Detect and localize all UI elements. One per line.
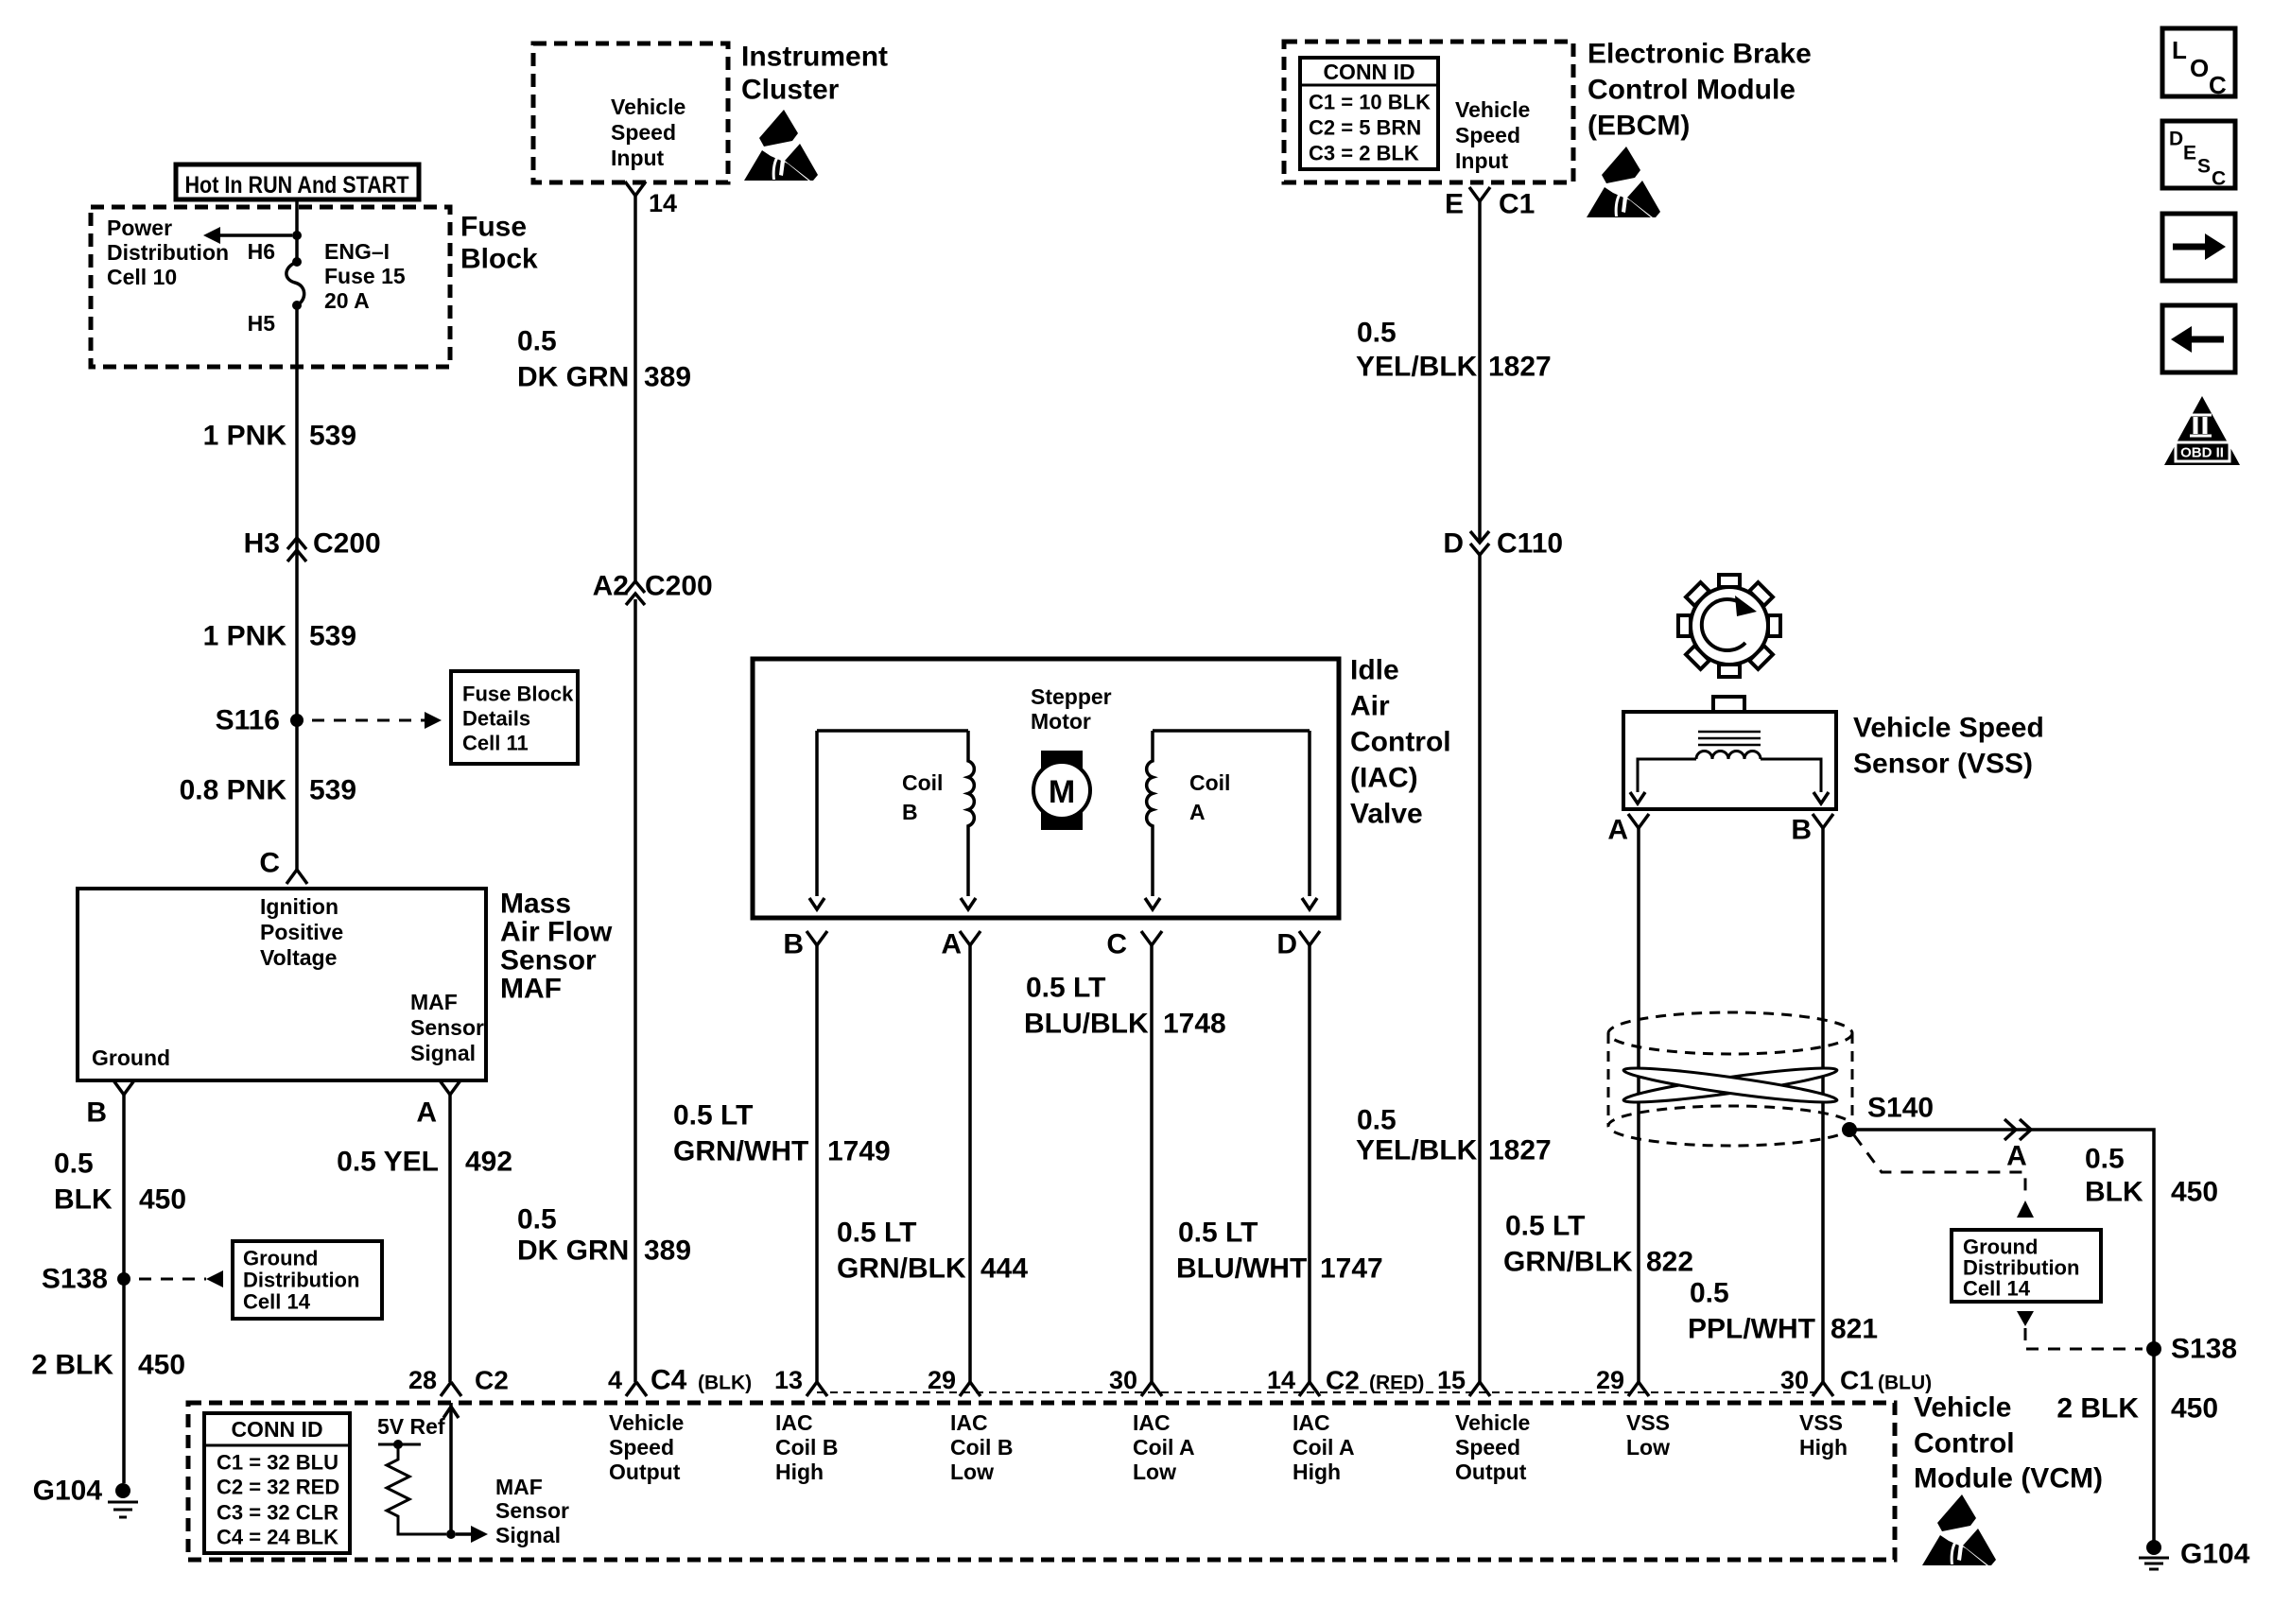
svg-text:822: 822 — [1646, 1247, 1693, 1278]
svg-text:Fuse: Fuse — [460, 212, 527, 243]
svg-text:PPL/WHT: PPL/WHT — [1688, 1314, 1815, 1345]
svg-text:Air Flow: Air Flow — [500, 917, 613, 948]
ESD sensitivity symbol (instrument cluster) — [744, 110, 818, 181]
instrument cluster pin 14 — [625, 181, 646, 196]
svg-text:A: A — [1189, 800, 1206, 824]
svg-text:492: 492 — [465, 1147, 512, 1178]
svg-text:IAC: IAC — [775, 1410, 813, 1435]
svg-text:Air: Air — [1350, 691, 1390, 722]
svg-text:B: B — [1791, 815, 1812, 846]
VCM pin 30 connector C1 (BLU) — [1813, 1382, 1833, 1396]
H6 feed arrow to power distribution — [220, 233, 292, 237]
svg-text:A: A — [416, 1097, 437, 1129]
svg-text:Signal: Signal — [410, 1041, 476, 1065]
wire: IAC pin A to VCM pin 29 (circuit 444) — [968, 945, 972, 1382]
VCM pin 15 — [1469, 1382, 1490, 1396]
legend OBD II symbol — [2164, 396, 2240, 465]
svg-text:OBD II: OBD II — [2180, 445, 2224, 461]
svg-text:0.5 LT: 0.5 LT — [1026, 973, 1105, 1004]
junction H6 feed dot — [292, 231, 302, 240]
svg-text:30: 30 — [1780, 1366, 1809, 1394]
svg-text:389: 389 — [644, 1235, 691, 1267]
ground G104 (right) — [2146, 1540, 2161, 1555]
VCM internal wire: pin 28 to MAF sensor signal node — [449, 1403, 453, 1534]
svg-text:450: 450 — [139, 1184, 186, 1216]
svg-text:YEL/BLK: YEL/BLK — [1356, 352, 1478, 383]
svg-text:1827: 1827 — [1488, 352, 1552, 383]
VSS reluctor wheel (gear symbol) — [1691, 587, 1768, 665]
pass-through chevrons on S140 wire — [2004, 1119, 2016, 1140]
svg-text:Motor: Motor — [1031, 709, 1091, 734]
svg-text:E: E — [1445, 189, 1464, 220]
svg-text:Block: Block — [460, 244, 538, 275]
VCM pin 13 — [807, 1382, 827, 1396]
svg-text:C2 = 5 BRN: C2 = 5 BRN — [1309, 116, 1421, 140]
reference box "Fuse Block Details Cell 11" — [451, 671, 578, 764]
svg-text:Coil: Coil — [1189, 770, 1230, 795]
svg-text:Vehicle Speed: Vehicle Speed — [1853, 713, 2044, 744]
VSS pin A — [1628, 814, 1649, 828]
svg-text:0.5: 0.5 — [2085, 1144, 2125, 1175]
svg-text:0.5: 0.5 — [54, 1149, 94, 1180]
fuse ENG-I Fuse 15 20 A (symbol) — [292, 257, 302, 267]
svg-text:28: 28 — [408, 1366, 437, 1394]
svg-text:13: 13 — [774, 1366, 803, 1394]
IAC pin B — [807, 931, 827, 945]
VCM pin 29 (VSS low) — [1628, 1382, 1649, 1396]
svg-text:C2: C2 — [475, 1366, 509, 1395]
svg-text:1747: 1747 — [1320, 1253, 1383, 1285]
svg-text:Ground: Ground — [243, 1247, 318, 1270]
svg-text:H5: H5 — [248, 311, 276, 336]
svg-text:B: B — [783, 929, 804, 960]
svg-text:30: 30 — [1109, 1366, 1137, 1394]
svg-text:GRN/BLK: GRN/BLK — [837, 1253, 966, 1285]
svg-text:O: O — [2190, 54, 2209, 82]
power feed box "Hot In RUN And START" — [176, 164, 419, 199]
svg-text:15: 15 — [1437, 1366, 1466, 1394]
svg-text:Coil A: Coil A — [1133, 1435, 1195, 1460]
svg-text:Module (VCM): Module (VCM) — [1914, 1463, 2103, 1494]
svg-text:Vehicle: Vehicle — [1914, 1392, 2011, 1424]
svg-text:14: 14 — [649, 189, 677, 217]
svg-text:A2: A2 — [593, 571, 629, 602]
svg-text:VSS: VSS — [1799, 1410, 1843, 1435]
wire: fuse H5 down to MAF pin C (circuit 539) — [295, 305, 299, 870]
svg-text:1 PNK: 1 PNK — [203, 621, 287, 652]
svg-text:14: 14 — [1267, 1366, 1295, 1394]
VSS pickup coil (symbol) — [1698, 732, 1761, 745]
svg-text:Electronic Brake: Electronic Brake — [1588, 39, 1812, 70]
svg-text:Low: Low — [1626, 1435, 1670, 1460]
VCM pin 14 connector C2 (RED) — [1299, 1382, 1320, 1396]
fuse block module (dashed box) — [91, 207, 450, 367]
svg-text:GRN/WHT: GRN/WHT — [673, 1136, 808, 1167]
svg-text:1749: 1749 — [827, 1136, 891, 1167]
svg-text:C110: C110 — [1497, 528, 1563, 560]
svg-text:H3: H3 — [244, 528, 280, 560]
svg-text:Coil: Coil — [902, 770, 943, 795]
svg-text:0.5 LT: 0.5 LT — [1505, 1211, 1585, 1242]
svg-text:Output: Output — [1455, 1460, 1527, 1484]
IAC coil A winding — [1153, 729, 1310, 733]
svg-text:Distribution: Distribution — [243, 1269, 359, 1292]
svg-text:Cell 11: Cell 11 — [462, 732, 529, 755]
IAC pin C — [1141, 931, 1162, 945]
arrow to MAF Sensor Signal (internal) — [456, 1532, 471, 1536]
svg-text:450: 450 — [138, 1350, 185, 1381]
svg-text:Ground: Ground — [92, 1045, 170, 1070]
svg-text:B: B — [86, 1097, 107, 1129]
svg-text:High: High — [1293, 1460, 1341, 1484]
svg-text:Ignition: Ignition — [260, 894, 338, 919]
connector H3 C200 (in-line) — [287, 538, 306, 549]
svg-text:Coil A: Coil A — [1293, 1435, 1355, 1460]
svg-text:C1 = 10 BLK: C1 = 10 BLK — [1309, 91, 1431, 114]
svg-text:Mass: Mass — [500, 889, 571, 920]
svg-text:(EBCM): (EBCM) — [1588, 111, 1690, 142]
svg-text:Fuse 15: Fuse 15 — [324, 264, 406, 288]
svg-text:YEL/BLK: YEL/BLK — [1356, 1135, 1478, 1166]
legend box right arrow — [2162, 214, 2235, 281]
svg-text:IAC: IAC — [950, 1410, 988, 1435]
svg-text:1748: 1748 — [1163, 1009, 1226, 1040]
svg-text:539: 539 — [309, 621, 356, 652]
svg-text:D: D — [1276, 929, 1297, 960]
svg-text:G104: G104 — [2180, 1539, 2250, 1570]
svg-text:821: 821 — [1831, 1314, 1878, 1345]
svg-text:C: C — [259, 848, 280, 879]
svg-text:Low: Low — [950, 1460, 994, 1484]
wire: MAF signal pin A to VCM pin 28 (circuit 492) — [448, 1095, 452, 1382]
legend box DESC — [2162, 121, 2235, 188]
svg-text:29: 29 — [928, 1366, 956, 1394]
svg-text:A: A — [1607, 815, 1628, 846]
svg-text:Output: Output — [609, 1460, 681, 1484]
svg-text:0.5: 0.5 — [517, 326, 557, 357]
svg-text:5V Ref: 5V Ref — [377, 1414, 445, 1439]
svg-text:Valve: Valve — [1350, 799, 1423, 830]
svg-text:Coil B: Coil B — [775, 1435, 838, 1460]
svg-text:539: 539 — [309, 421, 356, 452]
svg-text:L: L — [2172, 36, 2187, 64]
svg-text:0.5 YEL: 0.5 YEL — [337, 1147, 439, 1178]
vehicle speed sensor VSS (box) — [1713, 697, 1744, 712]
dashed reference arrow from S138 to Ground Distribution — [139, 1278, 206, 1281]
svg-text:Vehicle: Vehicle — [609, 1410, 684, 1435]
legend box left arrow — [2162, 305, 2235, 372]
svg-text:MAF: MAF — [410, 990, 458, 1014]
svg-text:S: S — [2197, 156, 2211, 178]
svg-text:0.5 LT: 0.5 LT — [837, 1218, 916, 1249]
svg-text:Fuse Block: Fuse Block — [462, 682, 574, 706]
wire: IAC pin D to VCM pin 14 (circuit 1747) — [1308, 945, 1311, 1382]
svg-text:Sensor (VSS): Sensor (VSS) — [1853, 749, 2033, 780]
VCM connector face (thin dashed line) — [817, 1391, 1823, 1393]
svg-text:450: 450 — [2171, 1177, 2218, 1208]
svg-text:S140: S140 — [1867, 1093, 1934, 1124]
dashed reference path from S140 to Ground Distribution (right) — [1854, 1135, 2025, 1195]
svg-text:(IAC): (IAC) — [1350, 763, 1418, 794]
svg-text:0.5: 0.5 — [1690, 1278, 1729, 1309]
IAC pin D — [1299, 931, 1320, 945]
svg-text:29: 29 — [1596, 1366, 1624, 1394]
svg-text:2 BLK: 2 BLK — [31, 1350, 113, 1381]
svg-text:444: 444 — [980, 1253, 1028, 1285]
legend box LOC — [2162, 28, 2235, 96]
vehicle control module VCM (dashed box) — [188, 1403, 1895, 1560]
svg-text:G104: G104 — [33, 1476, 103, 1507]
VCM pin 29 (IAC) — [960, 1382, 980, 1396]
connector D C110 (in-line) — [1470, 531, 1489, 543]
svg-text:Sensor: Sensor — [410, 1015, 484, 1040]
stepper motor M (symbol) — [1041, 751, 1083, 830]
svg-text:Control: Control — [1350, 727, 1451, 758]
svg-text:Control: Control — [1914, 1428, 2015, 1460]
svg-text:CONN ID: CONN ID — [231, 1417, 322, 1442]
svg-text:DK GRN: DK GRN — [517, 362, 629, 393]
svg-text:Vehicle: Vehicle — [611, 95, 685, 119]
svg-text:A: A — [941, 929, 962, 960]
mass air flow sensor MAF (box) — [78, 889, 486, 1080]
svg-text:0.5: 0.5 — [1357, 1105, 1397, 1136]
svg-text:C: C — [2212, 168, 2226, 190]
electronic brake control module EBCM (dashed box) — [1284, 42, 1573, 182]
svg-text:Sensor: Sensor — [495, 1498, 569, 1523]
svg-text:Idle: Idle — [1350, 655, 1399, 686]
svg-text:D: D — [2169, 129, 2183, 150]
ESD sensitivity symbol (VCM) — [1922, 1494, 1996, 1565]
svg-text:1 PNK: 1 PNK — [203, 421, 287, 452]
MAF pin B — [113, 1080, 134, 1095]
svg-text:Speed: Speed — [1455, 123, 1520, 147]
svg-text:MAF: MAF — [495, 1475, 543, 1499]
connector A2 C200 (in-line) — [626, 581, 645, 593]
svg-text:VSS: VSS — [1626, 1410, 1670, 1435]
svg-text:S138: S138 — [2171, 1334, 2237, 1365]
splice S138 (left) — [117, 1272, 130, 1286]
VCM pin 28 connector C2 — [441, 1382, 461, 1396]
svg-text:BLU/BLK: BLU/BLK — [1024, 1009, 1149, 1040]
svg-text:GRN/BLK: GRN/BLK — [1503, 1247, 1633, 1278]
IAC pin A — [960, 931, 980, 945]
svg-text:C200: C200 — [313, 528, 381, 560]
svg-text:Instrument: Instrument — [741, 42, 888, 73]
svg-text:Speed: Speed — [609, 1435, 674, 1460]
twisted pair shield (symbol) — [1607, 1033, 1610, 1126]
IAC coil B winding — [817, 729, 968, 733]
ground G104 (left) — [115, 1483, 130, 1498]
svg-text:D: D — [1443, 528, 1464, 560]
svg-text:(BLU): (BLU) — [1878, 1373, 1932, 1394]
VCM pin 30 (IAC) — [1141, 1382, 1162, 1396]
svg-text:Control Module: Control Module — [1588, 75, 1796, 106]
splice S140 — [1842, 1122, 1857, 1137]
svg-text:389: 389 — [644, 362, 691, 393]
svg-text:0.5: 0.5 — [1357, 318, 1397, 349]
splice S138 (right) — [2146, 1341, 2161, 1356]
svg-text:20 A: 20 A — [324, 288, 370, 313]
svg-text:(RED): (RED) — [1369, 1373, 1424, 1394]
svg-text:S138: S138 — [42, 1264, 108, 1295]
wire: IAC pin C to VCM pin 30 (circuit 1748) — [1150, 945, 1154, 1382]
svg-text:C200: C200 — [645, 571, 713, 602]
wire: VSS pin B to VCM pin 30 VSS high (circuit 821) — [1821, 828, 1825, 1382]
svg-text:Cell 10: Cell 10 — [107, 265, 177, 289]
rotation arrow inside reluctor wheel — [1702, 599, 1745, 650]
CONN ID table (VCM) — [204, 1413, 350, 1553]
svg-text:High: High — [1799, 1435, 1848, 1460]
svg-text:539: 539 — [309, 775, 356, 806]
svg-text:Cell 14: Cell 14 — [1963, 1277, 2031, 1301]
CONN ID table (EBCM) — [1300, 58, 1438, 169]
svg-text:0.5 LT: 0.5 LT — [673, 1100, 753, 1132]
dashed reference arrow from S116 to Fuse Block Details — [312, 719, 425, 722]
instrument cluster module (dashed box) — [533, 43, 728, 182]
svg-text:BLK: BLK — [2085, 1177, 2143, 1208]
svg-text:Hot In RUN And START: Hot In RUN And START — [185, 172, 409, 199]
VSS pin B — [1813, 814, 1833, 828]
splice S116 — [290, 714, 304, 727]
svg-text:M: M — [1049, 774, 1075, 810]
svg-text:IAC: IAC — [1293, 1410, 1330, 1435]
svg-text:1827: 1827 — [1488, 1135, 1552, 1166]
svg-text:0.8 PNK: 0.8 PNK — [180, 775, 287, 806]
reference box "Ground Distribution Cell 14" (left) — [233, 1241, 382, 1319]
reference box "Ground Distribution Cell 14" (right) — [1952, 1230, 2101, 1302]
svg-text:IAC: IAC — [1133, 1410, 1171, 1435]
svg-text:4: 4 — [608, 1366, 622, 1394]
wire: hot feed from box into fuse block — [295, 199, 299, 259]
svg-text:Voltage: Voltage — [260, 945, 337, 970]
svg-text:Speed: Speed — [1455, 1435, 1520, 1460]
svg-text:High: High — [775, 1460, 824, 1484]
svg-text:C1: C1 — [1840, 1366, 1874, 1395]
svg-text:C3 = 32 CLR: C3 = 32 CLR — [217, 1501, 338, 1525]
svg-text:0.5: 0.5 — [517, 1204, 557, 1235]
svg-text:Signal: Signal — [495, 1523, 561, 1547]
EBCM pin E connector C1 — [1469, 187, 1490, 201]
svg-text:C: C — [2209, 71, 2227, 99]
idle air control IAC valve (box) — [753, 659, 1339, 918]
svg-text:(BLK): (BLK) — [698, 1373, 752, 1394]
svg-text:C4: C4 — [651, 1365, 687, 1396]
svg-text:C4 = 24 BLK: C4 = 24 BLK — [217, 1526, 338, 1549]
svg-text:Input: Input — [1455, 148, 1509, 173]
svg-text:Low: Low — [1133, 1460, 1176, 1484]
svg-text:BLU/WHT: BLU/WHT — [1176, 1253, 1307, 1285]
svg-text:Input: Input — [611, 146, 665, 170]
svg-text:Details: Details — [462, 707, 530, 731]
resistor (5V ref pull-up) — [387, 1444, 446, 1534]
svg-text:B: B — [902, 800, 918, 824]
svg-text:Coil B: Coil B — [950, 1435, 1013, 1460]
wire: instrument cluster pin 14 to VCM pin 4 (circuit 389) — [633, 196, 637, 584]
wire: MAF ground pin B to G104 (circuit 450) — [122, 1095, 126, 1483]
svg-text:Distribution: Distribution — [107, 240, 229, 265]
svg-text:E: E — [2183, 143, 2196, 164]
svg-text:C3 = 2 BLK: C3 = 2 BLK — [1309, 142, 1419, 165]
svg-text:A: A — [2006, 1141, 2027, 1172]
MAF pin A — [440, 1080, 460, 1095]
svg-text:0.5 LT: 0.5 LT — [1178, 1218, 1258, 1249]
svg-text:Cell 14: Cell 14 — [243, 1290, 311, 1314]
svg-text:Positive: Positive — [260, 920, 343, 944]
wire: S140 to right edge ground run (circuit 450) — [1849, 1130, 2154, 1541]
svg-text:Cluster: Cluster — [741, 75, 840, 106]
ESD sensitivity symbol (EBCM) — [1587, 147, 1660, 217]
svg-text:Vehicle: Vehicle — [1455, 97, 1530, 122]
svg-text:Speed: Speed — [611, 120, 676, 145]
svg-text:C1 = 32 BLU: C1 = 32 BLU — [217, 1451, 338, 1475]
svg-text:Vehicle: Vehicle — [1455, 1410, 1530, 1435]
svg-text:CONN ID: CONN ID — [1323, 60, 1414, 84]
dashed reference path from Ground Distribution to S138 (right) — [2017, 1311, 2034, 1326]
svg-text:2 BLK: 2 BLK — [2056, 1393, 2139, 1425]
svg-text:Power: Power — [107, 216, 172, 240]
VCM pin 4 connector C4 — [626, 1382, 647, 1396]
wire: EBCM pin E to VCM pin 15 (circuit 1827) — [1478, 201, 1482, 542]
svg-text:ENG–I: ENG–I — [324, 239, 390, 264]
wire: VSS pin A to VCM pin 29 VSS low (circuit 822) — [1637, 828, 1640, 1382]
svg-text:C: C — [1106, 929, 1127, 960]
svg-text:S116: S116 — [216, 705, 280, 736]
svg-text:MAF: MAF — [500, 974, 562, 1005]
svg-text:C1: C1 — [1499, 189, 1535, 220]
svg-text:C2 = 32 RED: C2 = 32 RED — [217, 1476, 339, 1499]
svg-text:DK GRN: DK GRN — [517, 1235, 629, 1267]
svg-text:Stepper: Stepper — [1031, 684, 1112, 709]
svg-text:BLK: BLK — [54, 1184, 113, 1216]
svg-text:Sensor: Sensor — [500, 945, 597, 976]
wire: IAC pin B to VCM pin 13 (circuit 1749) — [815, 945, 819, 1382]
svg-text:C2: C2 — [1326, 1366, 1360, 1395]
svg-text:H6: H6 — [248, 239, 275, 264]
svg-text:450: 450 — [2171, 1393, 2218, 1425]
